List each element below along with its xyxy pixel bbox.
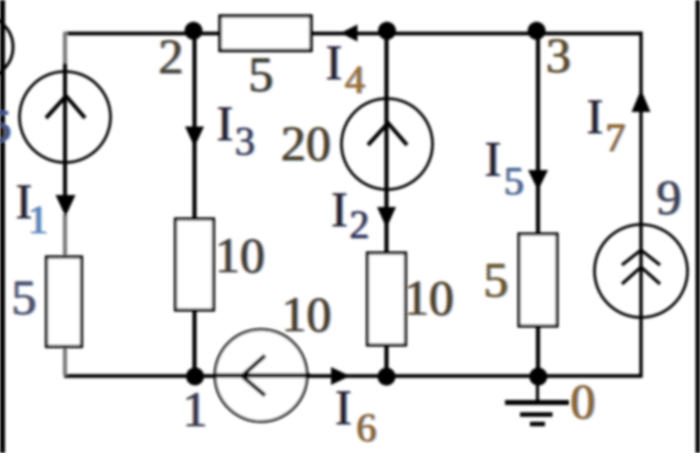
- svg-text:10: 10: [404, 270, 454, 326]
- wire through bottom source: [216, 373, 310, 378]
- ground bar 1: [505, 400, 569, 405]
- arrow I2: [377, 207, 396, 228]
- current source 20 circle: [342, 99, 433, 190]
- svg-text:3: 3: [546, 27, 571, 83]
- current source I1 arrow chevron: [46, 96, 85, 118]
- current source 10 circle (bottom): [215, 330, 307, 422]
- svg-text:6: 6: [357, 405, 377, 450]
- node 3: [528, 22, 546, 40]
- arrow I6: [331, 367, 350, 385]
- node top branch3: [378, 22, 396, 40]
- arrow I1: [56, 195, 76, 217]
- wire branch3 lower: [384, 345, 388, 377]
- left table border bar: [0, 0, 5, 453]
- wire left branch upper: [63, 32, 67, 63]
- wire branch2 lower: [192, 310, 196, 377]
- wire left branch below arrow (gray): [63, 214, 67, 258]
- svg-text:10: 10: [282, 286, 332, 342]
- current source 9 circle: [595, 225, 688, 318]
- svg-text:1: 1: [183, 381, 208, 437]
- right table border line: [696, 0, 700, 453]
- resistor R3 value 10: [176, 219, 214, 310]
- svg-text:2: 2: [350, 202, 370, 247]
- svg-text:I: I: [217, 95, 234, 151]
- wire top horizontal: [64, 32, 641, 36]
- arrow I7: [632, 90, 651, 113]
- svg-text:10: 10: [215, 227, 265, 283]
- svg-text:I: I: [326, 34, 343, 90]
- current source I1 circle: [20, 72, 111, 163]
- resistor top value 5: [220, 16, 311, 51]
- svg-text:4: 4: [345, 57, 365, 102]
- arrow I4: [341, 25, 358, 42]
- svg-text:9: 9: [657, 169, 682, 225]
- wire left branch through source: [63, 63, 67, 196]
- ground bar 2: [520, 412, 553, 417]
- wire branch3 upper: [384, 33, 388, 254]
- svg-text:20: 20: [281, 115, 331, 171]
- svg-text:5: 5: [249, 46, 274, 102]
- current source 20 arrow chevron: [368, 123, 407, 145]
- wire left branch lower: [63, 347, 67, 375]
- wire bottom horizontal: [64, 374, 641, 378]
- svg-text:5: 5: [12, 269, 37, 325]
- svg-text:7: 7: [606, 115, 626, 160]
- svg-text:I: I: [331, 181, 348, 237]
- svg-text:3: 3: [235, 119, 255, 164]
- current source 9 double chevron upper: [622, 250, 660, 265]
- svg-text:5: 5: [504, 159, 524, 204]
- svg-text:I: I: [335, 379, 352, 435]
- resistor R1 value 5: [47, 257, 82, 347]
- node 0: [529, 368, 547, 386]
- wire branch4 upper: [536, 33, 540, 235]
- current source 9 double chevron lower: [622, 267, 660, 284]
- ground bar 3: [530, 422, 545, 427]
- partial circle (cropped neighbour figure): [0, 16, 13, 78]
- wire branch4 lower: [536, 326, 540, 377]
- svg-text:I: I: [587, 88, 604, 144]
- resistor R5 value 5: [519, 234, 557, 326]
- wire right branch: [639, 32, 642, 378]
- current source 10 arrow chevron: [242, 356, 265, 396]
- svg-text:5: 5: [484, 252, 509, 308]
- arrow I5: [528, 170, 548, 191]
- svg-text:0: 0: [571, 373, 596, 429]
- svg-text:2: 2: [159, 28, 184, 84]
- node 1: [186, 367, 204, 385]
- svg-text:I: I: [485, 131, 502, 187]
- node bottom branch3: [378, 368, 396, 386]
- ground stub: [536, 376, 539, 403]
- node 2: [185, 22, 203, 40]
- resistor R2 value 10: [368, 253, 406, 345]
- arrow I3: [185, 127, 204, 148]
- wire branch2 upper: [192, 33, 196, 220]
- svg-text:1: 1: [28, 197, 48, 242]
- svg-text:5: 5: [0, 100, 12, 151]
